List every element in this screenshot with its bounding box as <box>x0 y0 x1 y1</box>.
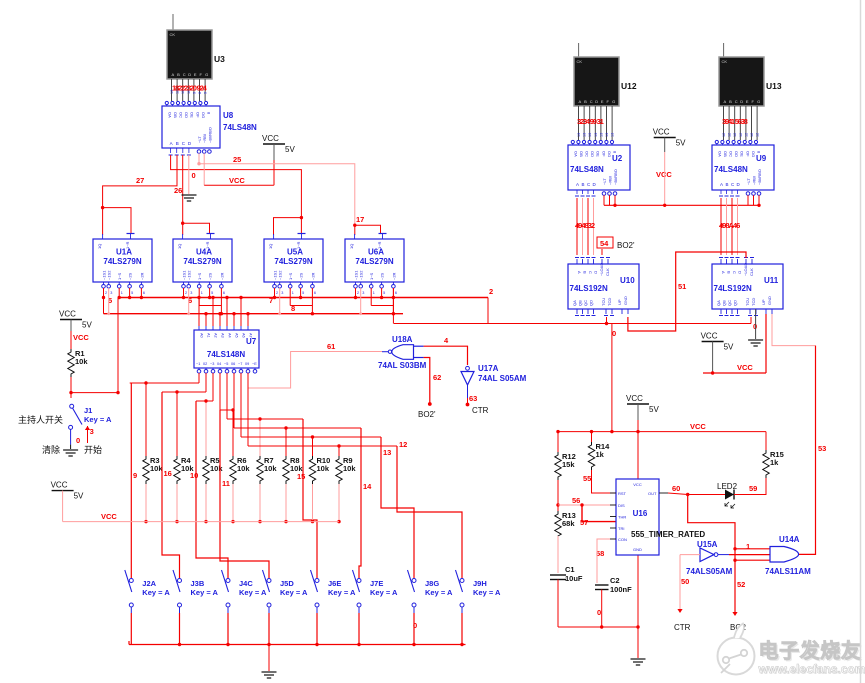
svg-text:B: B <box>729 99 732 104</box>
svg-text:3: 3 <box>362 291 364 295</box>
svg-text:13: 13 <box>577 133 581 137</box>
svg-text:J2A: J2A <box>142 579 156 588</box>
wire J4C to bottom rail <box>227 613 229 645</box>
svg-text:~3: ~3 <box>210 362 214 366</box>
wire branch to U14A input 1 <box>735 548 770 550</box>
svg-text:74LS148N: 74LS148N <box>207 350 245 359</box>
wire VCC to U11 power pin <box>703 372 766 374</box>
svg-text:74LS279N: 74LS279N <box>355 257 393 266</box>
svg-text:~LT: ~LT <box>602 178 607 185</box>
svg-text:74AL S03BM: 74AL S03BM <box>378 361 427 370</box>
wire resistor R9 top tap <box>338 446 340 456</box>
7-segment display U3 <box>167 30 212 79</box>
timer U16 555_TIMER_RATED <box>616 479 659 555</box>
wire U12 clock stub <box>578 43 580 57</box>
svg-text:74LS192N: 74LS192N <box>714 284 752 293</box>
counter U10 74LS192N <box>568 264 639 309</box>
svg-text:17: 17 <box>356 215 364 224</box>
svg-text:C: C <box>732 271 737 274</box>
svg-text:VCC: VCC <box>633 482 642 487</box>
resistor R3 10k <box>143 456 149 484</box>
svg-text:04: 04 <box>217 362 221 366</box>
wire VCC rail to R15 <box>765 432 767 450</box>
svg-text:QA: QA <box>716 300 721 306</box>
svg-text:18222320 924: 18222320 924 <box>172 84 208 93</box>
wire U7 output fan 7 <box>241 436 381 438</box>
wire net60 to LED2 <box>688 494 725 496</box>
latch U1A 74LS279N <box>93 239 152 282</box>
svg-text:Key = A: Key = A <box>191 588 219 597</box>
svg-text:OC: OC <box>179 112 184 118</box>
svg-text:CTR: CTR <box>472 406 489 415</box>
svg-text:74ALS05AM: 74ALS05AM <box>686 567 733 576</box>
svg-text:J7E: J7E <box>370 579 383 588</box>
svg-text:62: 62 <box>433 373 441 382</box>
svg-text:B: B <box>726 182 729 187</box>
svg-text:100nF: 100nF <box>610 585 632 594</box>
svg-text:3: 3 <box>190 291 192 295</box>
svg-text:5: 5 <box>211 291 213 295</box>
svg-text:U13: U13 <box>766 81 782 91</box>
svg-text:~1S2: ~1S2 <box>107 270 112 280</box>
svg-text:27: 27 <box>136 176 144 185</box>
wire net 61 from U7 to U18A <box>248 352 382 389</box>
svg-text:TCD: TCD <box>751 298 756 306</box>
switch J8G <box>413 570 415 578</box>
svg-text:1: 1 <box>201 291 203 295</box>
svg-text:7: 7 <box>269 296 273 305</box>
svg-text:61: 61 <box>327 342 335 351</box>
svg-text:~E: ~E <box>252 362 257 366</box>
svg-text:10k: 10k <box>75 357 88 366</box>
decoder enable bus horizontal <box>604 204 759 206</box>
wire R10 to VCC rail <box>312 484 314 522</box>
resistor R4 10k <box>174 456 180 484</box>
svg-text:12: 12 <box>756 133 760 137</box>
svg-text:12: 12 <box>739 133 743 137</box>
wire R7 to VCC rail <box>259 484 261 522</box>
svg-text:U17A: U17A <box>478 364 499 373</box>
svg-text:14: 14 <box>363 482 372 491</box>
svg-text:A4: A4 <box>228 333 232 338</box>
BCD decoder U2 74LS48N <box>568 145 630 190</box>
svg-text:B: B <box>583 271 588 274</box>
svg-text:1~R: 1~R <box>296 241 301 249</box>
svg-text:A6: A6 <box>242 333 246 338</box>
svg-text:G: G <box>205 72 208 77</box>
svg-text:GND: GND <box>623 296 628 305</box>
svg-text:12: 12 <box>750 133 754 137</box>
svg-text:VCC: VCC <box>73 333 89 342</box>
wire R9 to VCC rail <box>338 484 340 522</box>
svg-text:1: 1 <box>746 542 750 551</box>
resistor R14 1k <box>591 432 593 442</box>
svg-text:J3B: J3B <box>191 579 205 588</box>
svg-text:OD: OD <box>590 151 595 157</box>
svg-text:68k: 68k <box>562 519 575 528</box>
svg-text:1k: 1k <box>770 458 779 467</box>
net 54 flag with box <box>597 237 613 248</box>
svg-text:3: 3 <box>90 427 94 436</box>
svg-text:OF: OF <box>601 151 606 157</box>
svg-text:QC: QC <box>727 300 732 306</box>
svg-text:OB: OB <box>579 151 584 157</box>
resistor R8 10k <box>283 456 289 484</box>
svg-text:~2S: ~2S <box>299 272 304 280</box>
svg-text:1~R: 1~R <box>377 241 382 249</box>
wire J9H to bottom rail <box>461 613 463 645</box>
svg-text:U8: U8 <box>223 111 234 120</box>
svg-text:74LS192N: 74LS192N <box>570 284 608 293</box>
wire J7E to bottom rail <box>358 613 360 645</box>
svg-text:10k: 10k <box>210 464 223 473</box>
resistor R5 10k <box>203 456 209 484</box>
resistor R9 10k <box>336 456 342 484</box>
svg-text:6: 6 <box>223 291 225 295</box>
svg-text:OC: OC <box>585 151 590 157</box>
switch J1 <box>70 393 72 398</box>
svg-text:D: D <box>738 271 743 274</box>
svg-text:Key = A: Key = A <box>425 588 453 597</box>
svg-text:~BI/RBO: ~BI/RBO <box>757 169 762 185</box>
BCD decoder U8 74LS48N <box>162 106 220 148</box>
svg-text:OG: OG <box>201 112 206 118</box>
ground under 555 <box>631 658 646 660</box>
svg-text:5: 5 <box>302 291 304 295</box>
svg-text:B: B <box>582 182 585 187</box>
wire net 26 U8 pin C to U4A <box>182 155 184 223</box>
wire U2 enable pins to bus <box>603 195 605 205</box>
svg-text:A3: A3 <box>221 333 225 338</box>
svg-text:74LS279N: 74LS279N <box>274 257 312 266</box>
svg-text:~BI/RBO: ~BI/RBO <box>613 169 618 185</box>
svg-text:1~R: 1~R <box>125 241 130 249</box>
svg-text:OD: OD <box>734 151 739 157</box>
wire feed to switch J3B <box>162 392 180 570</box>
svg-text:12: 12 <box>733 133 737 137</box>
svg-text:C: C <box>183 72 186 77</box>
svg-text:U9: U9 <box>756 154 767 163</box>
svg-text:OE: OE <box>190 112 195 118</box>
svg-text:BO2': BO2' <box>617 241 635 250</box>
svg-text:0: 0 <box>76 436 80 445</box>
svg-text:C2: C2 <box>610 576 620 585</box>
svg-text:CK: CK <box>577 59 583 64</box>
svg-text:74ALS11AM: 74ALS11AM <box>765 567 811 576</box>
resistor R6 10k <box>230 456 236 484</box>
svg-text:TCU: TCU <box>601 298 606 306</box>
svg-text:~1: ~1 <box>196 362 200 366</box>
svg-text:5V: 5V <box>649 405 659 414</box>
resistor R12 15k <box>555 452 561 480</box>
power VCC 5V lower left <box>52 490 74 492</box>
mid jog wires under latches <box>199 305 221 307</box>
power VCC 5V top right <box>654 137 676 139</box>
svg-text:~2R: ~2R <box>391 272 396 280</box>
svg-text:10k: 10k <box>264 464 277 473</box>
wire U15A out to U14A input 2 <box>729 554 770 556</box>
wire VCC rail down left column <box>557 432 559 452</box>
svg-text:CK: CK <box>722 59 728 64</box>
svg-text:开始: 开始 <box>84 444 102 455</box>
svg-text:1: 1 <box>121 291 123 295</box>
svg-text:1~R: 1~R <box>205 241 210 249</box>
svg-text:OUT: OUT <box>648 491 657 496</box>
svg-text:1Q: 1Q <box>268 244 273 249</box>
svg-text:5: 5 <box>131 291 133 295</box>
switch J4C <box>227 570 229 578</box>
svg-text:RST: RST <box>618 491 627 496</box>
svg-text:DIS: DIS <box>618 503 625 508</box>
svg-text:13: 13 <box>599 133 603 137</box>
svg-text:55: 55 <box>583 474 591 483</box>
svg-text:C1: C1 <box>565 565 575 574</box>
svg-text:6: 6 <box>314 291 316 295</box>
svg-text:~2R: ~2R <box>139 272 144 280</box>
svg-text:OA: OA <box>717 151 722 157</box>
svg-text:CK: CK <box>170 32 176 37</box>
svg-text:清除: 清除 <box>42 444 60 455</box>
svg-text:~2S: ~2S <box>128 272 133 280</box>
svg-text:1k: 1k <box>596 450 605 459</box>
wire net 51 U10 to U11 <box>628 252 746 331</box>
svg-text:OA: OA <box>167 112 172 118</box>
svg-text:J4C: J4C <box>239 579 253 588</box>
net 8 bus horizontal <box>104 313 404 315</box>
svg-text:~7: ~7 <box>238 362 242 366</box>
ground under U11 <box>748 339 763 341</box>
svg-text:10uF: 10uF <box>565 574 583 583</box>
svg-text:57: 57 <box>580 518 588 527</box>
wire VCC stem to VCC rail <box>273 160 275 185</box>
svg-text:QD: QD <box>589 300 594 306</box>
svg-text:555_TIMER_RATED: 555_TIMER_RATED <box>631 530 705 539</box>
svg-text:53: 53 <box>818 444 826 453</box>
wire feed to switch J2A <box>130 383 132 570</box>
svg-text:50: 50 <box>681 577 689 586</box>
svg-text:G: G <box>757 99 760 104</box>
resistor R1 10k <box>68 349 74 377</box>
svg-text:~2R: ~2R <box>310 272 315 280</box>
svg-text:VCC: VCC <box>737 363 753 372</box>
wire J6E to bottom rail <box>316 613 318 645</box>
svg-text:VCC: VCC <box>262 134 279 143</box>
svg-text:2: 2 <box>357 291 359 295</box>
svg-text:63: 63 <box>469 394 477 403</box>
svg-text:51: 51 <box>678 282 686 291</box>
switch J6E <box>316 570 318 578</box>
svg-text:3: 3 <box>281 291 283 295</box>
svg-text:D: D <box>188 72 191 77</box>
svg-text:25: 25 <box>233 155 241 164</box>
svg-text:QB: QB <box>722 300 727 306</box>
svg-text:A: A <box>720 182 723 187</box>
switch J5D <box>268 570 270 578</box>
svg-text:74LS48N: 74LS48N <box>714 165 748 174</box>
svg-text:A: A <box>724 99 727 104</box>
svg-text:QB: QB <box>578 300 583 306</box>
wire feed to switch J4C <box>196 401 228 570</box>
switch J3B <box>179 570 181 578</box>
wire J1 to ground <box>70 429 72 444</box>
svg-text:12: 12 <box>728 133 732 137</box>
svg-text:10: 10 <box>190 471 198 480</box>
svg-text:C: C <box>590 99 593 104</box>
svg-text:0: 0 <box>612 329 616 338</box>
svg-text:59: 59 <box>749 484 757 493</box>
svg-text:2: 2 <box>105 291 107 295</box>
svg-text:11: 11 <box>222 479 230 488</box>
net 0 bottom rail <box>129 644 466 646</box>
svg-text:5: 5 <box>383 291 385 295</box>
resistor R7 10k <box>257 456 263 484</box>
svg-text:~LOAD: ~LOAD <box>743 263 748 276</box>
svg-text:26: 26 <box>174 186 182 195</box>
svg-text:2: 2 <box>276 291 278 295</box>
svg-text:OC: OC <box>729 151 734 157</box>
svg-text:10k: 10k <box>237 464 250 473</box>
svg-text:9: 9 <box>133 471 137 480</box>
7-segment display U13 <box>719 57 764 106</box>
wires U2 outputs down to U10 <box>576 198 578 255</box>
svg-text:GND: GND <box>633 547 642 552</box>
svg-text:主持人开关: 主持人开关 <box>18 414 63 425</box>
svg-text:12: 12 <box>744 133 748 137</box>
svg-text:74AL S05AM: 74AL S05AM <box>478 374 527 383</box>
svg-text:2: 2 <box>489 287 493 296</box>
svg-text:~RBI: ~RBI <box>608 176 613 185</box>
svg-text:A: A <box>577 271 582 274</box>
svg-text:~2R: ~2R <box>219 272 224 280</box>
wire resistor R7 top tap <box>259 419 261 456</box>
power VCC 5V symbol top middle <box>263 143 285 145</box>
wire U11 ground pin <box>755 309 757 339</box>
svg-text:VCC: VCC <box>51 481 68 490</box>
power VCC 5V upper left <box>60 319 82 321</box>
svg-text:13: 13 <box>383 448 391 457</box>
wire U7 output fan 5 <box>227 418 303 420</box>
svg-text:A0: A0 <box>200 333 204 338</box>
wire U7 output fan 2 <box>162 391 206 393</box>
svg-text:A2: A2 <box>214 333 218 338</box>
page edge line <box>860 0 862 683</box>
wire feed to switch J6E <box>303 419 317 570</box>
wire U7 top feeds <box>198 298 200 327</box>
svg-text:06: 06 <box>231 362 235 366</box>
wire resistor R6 top tap <box>232 410 234 456</box>
svg-text:D: D <box>740 99 743 104</box>
svg-text:1Q: 1Q <box>349 244 354 249</box>
svg-text:J6E: J6E <box>328 579 341 588</box>
wire net 57 to THR pin <box>581 505 583 522</box>
svg-text:Key = A: Key = A <box>280 588 308 597</box>
ground under U8 <box>182 194 197 196</box>
wire U11 pin to net 53 <box>772 314 816 346</box>
svg-text:2: 2 <box>185 291 187 295</box>
7-segment display U12 <box>574 57 619 106</box>
svg-text:1: 1 <box>373 291 375 295</box>
wire R1 to J1 node <box>70 377 72 393</box>
wire J2A to bottom rail <box>130 613 132 645</box>
svg-text:60: 60 <box>672 484 680 493</box>
svg-text:Key = A: Key = A <box>142 588 170 597</box>
svg-text:Key = A: Key = A <box>84 415 112 424</box>
svg-text:0: 0 <box>753 322 757 331</box>
wire net 27 from U1A to U8 pin B <box>103 155 177 208</box>
svg-text:OB: OB <box>723 151 728 157</box>
svg-text:A: A <box>576 182 579 187</box>
power VCC 5V under U11 <box>702 341 724 343</box>
svg-text:OE: OE <box>596 151 601 157</box>
svg-text:~5: ~5 <box>224 362 228 366</box>
svg-text:OD: OD <box>184 112 189 118</box>
wire resistor R3 top tap <box>145 383 147 456</box>
svg-text:THR: THR <box>618 515 626 520</box>
svg-text:13: 13 <box>594 133 598 137</box>
wire C1 C2 to bottom rail <box>557 580 559 628</box>
wire R3 to VCC rail <box>145 484 147 522</box>
elecfans watermark logo <box>718 624 755 675</box>
svg-text:www.elecfans.com: www.elecfans.com <box>758 662 865 676</box>
svg-text:U3: U3 <box>214 54 225 64</box>
wire VCC to R1 <box>70 331 72 349</box>
svg-text:B: B <box>176 141 179 146</box>
wire U3 clock stub <box>172 14 174 30</box>
svg-text:5V: 5V <box>74 492 84 501</box>
svg-text:~BI/RBO: ~BI/RBO <box>207 127 212 143</box>
svg-text:~RBI: ~RBI <box>752 176 757 185</box>
svg-text:54: 54 <box>600 239 609 248</box>
svg-text:16: 16 <box>164 469 172 478</box>
wire feed to switch J8G <box>381 437 414 570</box>
wire VCC stem to decoder bus <box>664 152 666 205</box>
net 5 bus horizontal <box>118 297 488 299</box>
latch U6A 74LS279N <box>345 239 404 282</box>
pale VCC rail horizontal <box>63 521 339 523</box>
latch U4A 74LS279N <box>173 239 232 282</box>
display U3 segment wires to U8 <box>171 79 173 101</box>
svg-text:U2: U2 <box>612 154 623 163</box>
svg-text:0: 0 <box>192 171 196 180</box>
svg-text:10k: 10k <box>343 464 356 473</box>
svg-text:C: C <box>735 99 738 104</box>
svg-text:CLK: CLK <box>605 268 610 276</box>
svg-text:1Q: 1Q <box>177 244 182 249</box>
svg-text:~1S2: ~1S2 <box>278 270 283 280</box>
wire U8 pin A to U5A (net down right) <box>171 155 302 218</box>
svg-text:QA: QA <box>572 300 577 306</box>
svg-text:A7: A7 <box>249 333 253 338</box>
svg-text:Key = A: Key = A <box>473 588 501 597</box>
svg-text:J9H: J9H <box>473 579 487 588</box>
svg-text:QC: QC <box>583 300 588 306</box>
svg-text:电子发烧友: 电子发烧友 <box>759 639 862 663</box>
svg-text:VCC: VCC <box>653 128 670 137</box>
svg-text:5V: 5V <box>285 145 295 154</box>
svg-text:Key = A: Key = A <box>370 588 398 597</box>
svg-text:74LS279N: 74LS279N <box>183 257 221 266</box>
BCD decoder U9 74LS48N <box>712 145 774 190</box>
svg-text:A5: A5 <box>235 333 239 338</box>
wire net 25 pale from U8 to U6A <box>198 153 200 163</box>
svg-text:5V: 5V <box>82 321 92 330</box>
svg-text:0: 0 <box>413 621 417 630</box>
svg-text:494832: 494832 <box>575 221 595 230</box>
wire down to 555 VCC rail <box>611 324 613 432</box>
svg-text:1~S: 1~S <box>117 272 122 280</box>
svg-text:6: 6 <box>143 291 145 295</box>
switch J9H <box>461 570 463 578</box>
